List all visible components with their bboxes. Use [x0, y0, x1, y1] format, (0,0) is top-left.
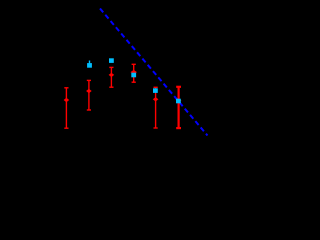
- red data point P5 error bar: [154, 87, 158, 128]
- red data point P4 error bar: [132, 64, 136, 82]
- cyan point S2 square marker: [109, 58, 114, 63]
- red data point P6 marker (hidden behind square S5): [176, 98, 182, 102]
- red data point P2 marker: [86, 89, 92, 93]
- cyan point S3 square marker: [131, 73, 136, 78]
- red data point P4 marker: [130, 70, 137, 74]
- red data point P2 error bar: [87, 80, 91, 110]
- red data point P1 error bar: [64, 88, 68, 128]
- red data point P3 error bar: [109, 67, 113, 87]
- red data point P1 marker: [64, 98, 70, 102]
- chart plot area: [0, 0, 266, 190]
- cyan point S4 square marker: [153, 88, 158, 93]
- red data point P6 error bar (thicker): [176, 87, 181, 128]
- red data point P3 marker: [109, 73, 115, 77]
- cyan point S1 whisker: [89, 61, 91, 65]
- cyan point S5 square marker: [176, 99, 181, 104]
- model curve: blue dashed line: [100, 9, 208, 136]
- red data point P5 marker: [153, 97, 159, 101]
- cyan point S1 square marker: [87, 63, 92, 68]
